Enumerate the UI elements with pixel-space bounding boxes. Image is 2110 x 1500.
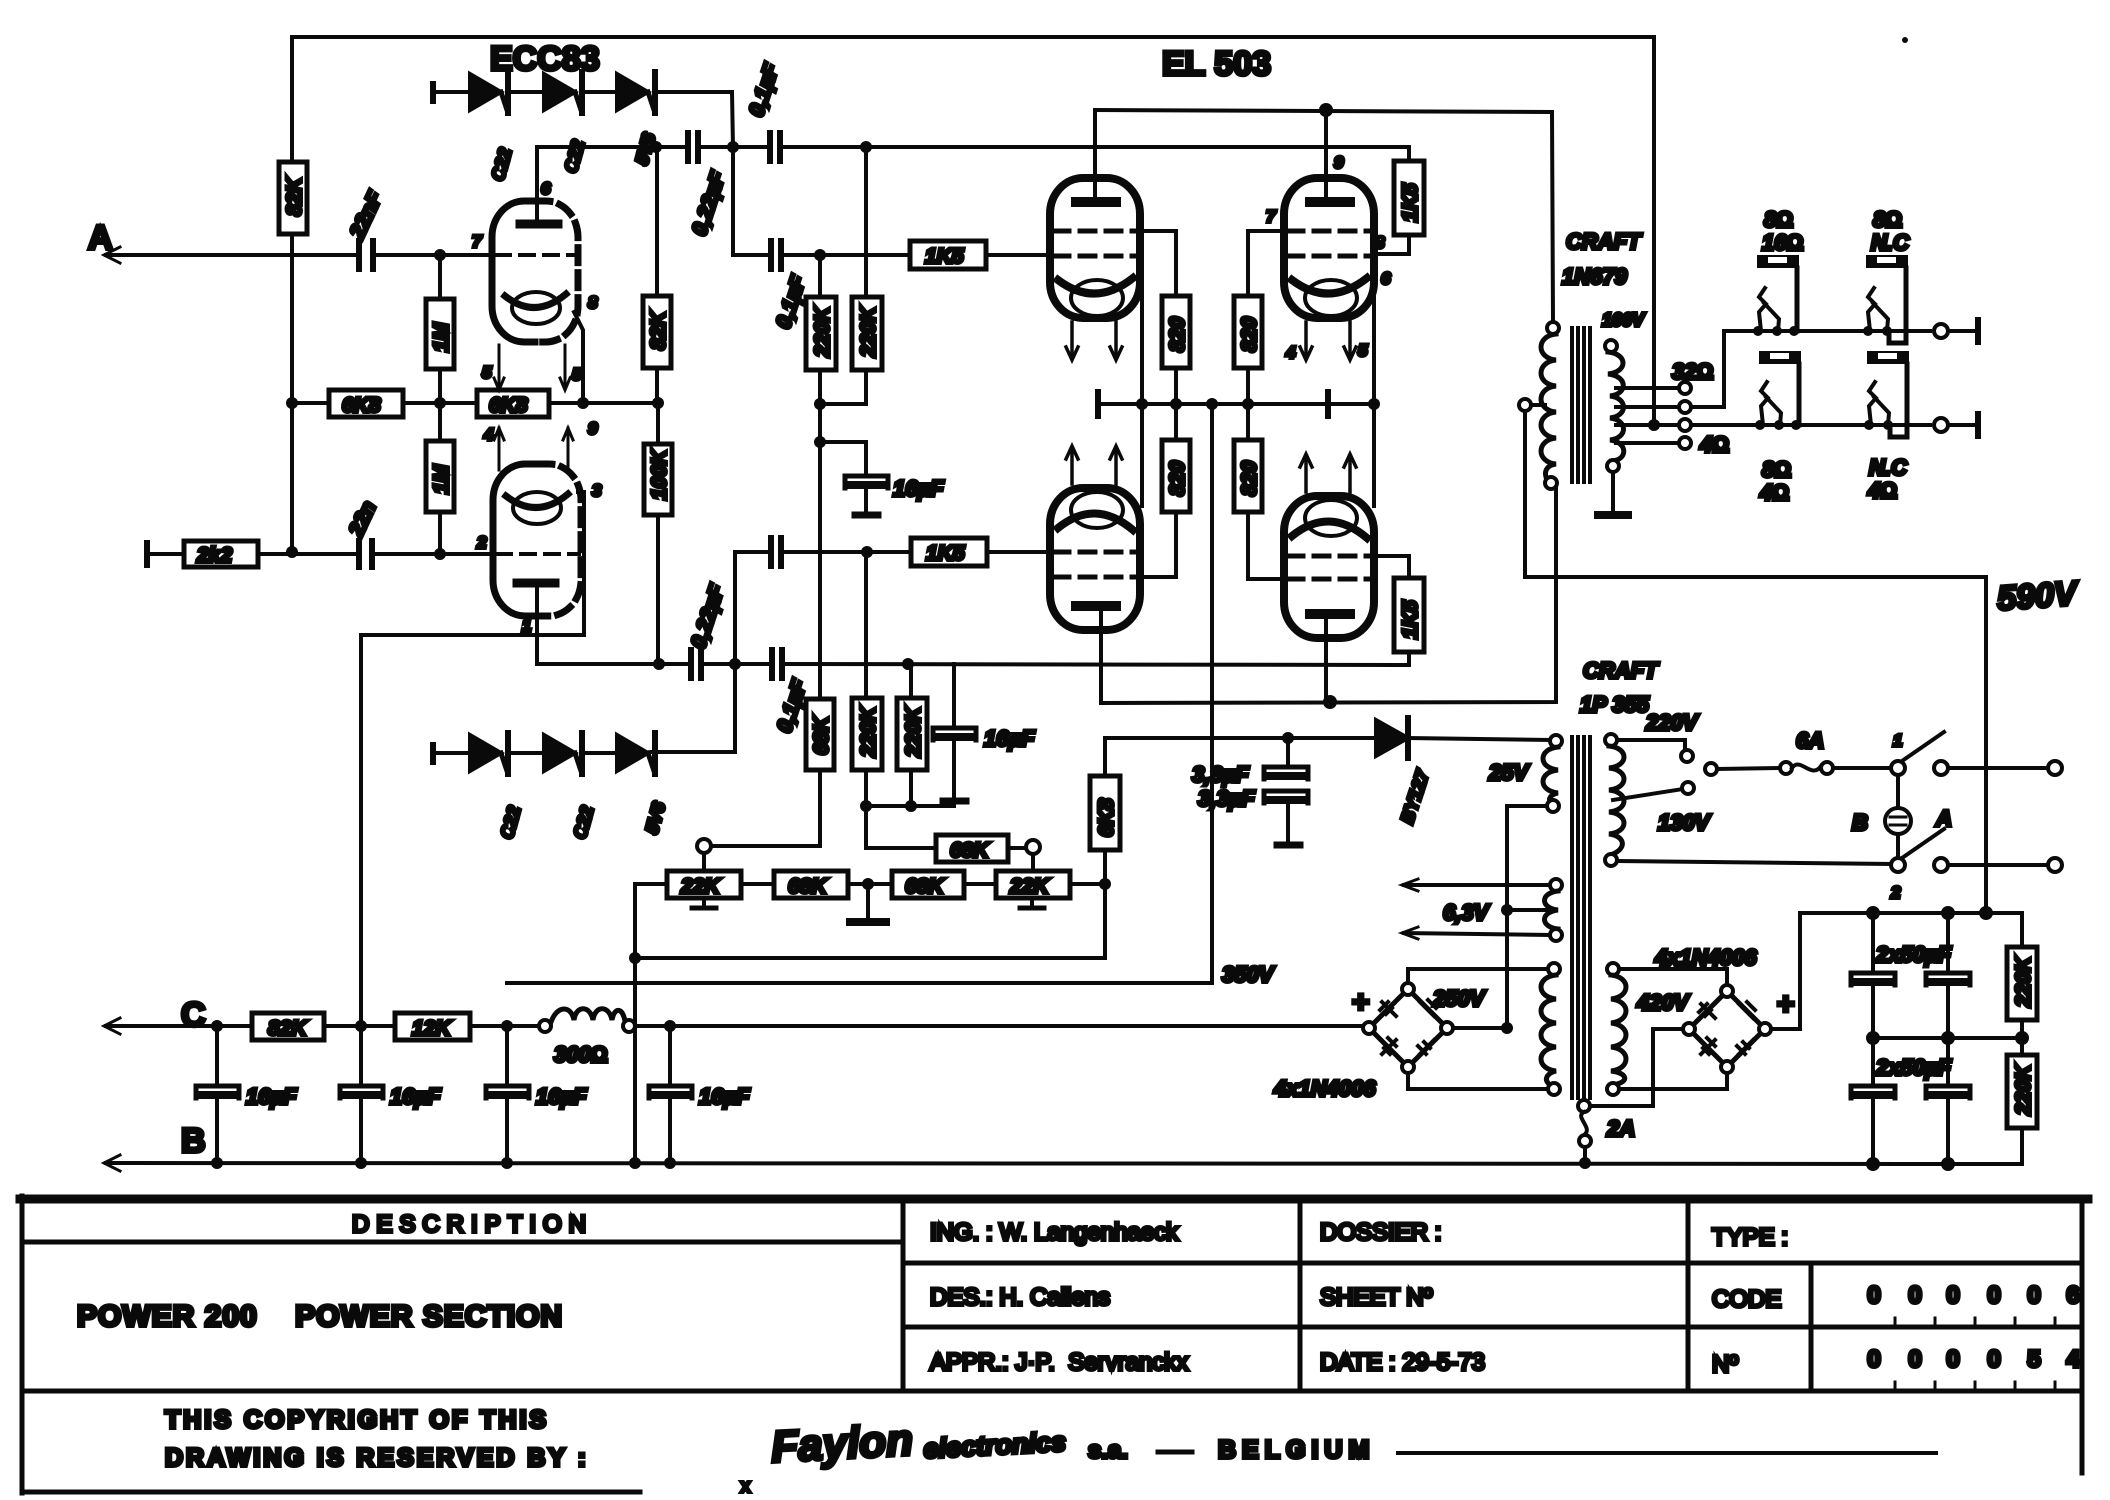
- svg-text:0: 0: [1946, 1282, 1959, 1309]
- resistor 820 (V3): [1234, 296, 1262, 398]
- svg-text:x: x: [741, 1476, 750, 1496]
- svg-text:B: B: [1852, 810, 1868, 835]
- diode C22: [470, 72, 544, 113]
- wire plate riser V5: [1324, 618, 1328, 702]
- wire bias loop: [633, 884, 637, 1163]
- wire plate rail lower y703: [1101, 489, 1556, 703]
- svg-text:16µF: 16µF: [893, 476, 944, 501]
- svg-text:5: 5: [1358, 341, 1368, 360]
- svg-text:APPR.: J·P. Servranckx: APPR.: J·P. Servranckx: [930, 1349, 1188, 1376]
- svg-text:3,3µF: 3,3µF: [1198, 786, 1255, 811]
- svg-text:350V: 350V: [1222, 962, 1276, 987]
- svg-text:16Ω: 16Ω: [1762, 230, 1803, 255]
- wire jack row2 bus: [1691, 423, 1930, 427]
- resistor 1K5 (screen V5): [1374, 556, 1424, 665]
- wire 6.3V leads: [1402, 879, 1550, 891]
- wire to tube2 grid: [374, 552, 493, 556]
- wire tap to jack row1: [1691, 331, 1758, 407]
- wire screen rail top y147: [537, 145, 684, 149]
- diode 5V6: [617, 72, 733, 147]
- border right: [2080, 1199, 2085, 1473]
- svg-text:B: B: [181, 1122, 206, 1160]
- svg-text:1: 1: [1893, 731, 1902, 750]
- tube EL503 V3 (upper right): [1284, 178, 1374, 318]
- capacitor 2x50uF (upper b): [1926, 913, 1970, 1038]
- svg-text:0: 0: [1908, 1346, 1921, 1373]
- lamp: [1852, 775, 1952, 858]
- row line under DESCRIPTION: [22, 1240, 903, 1245]
- wire plate riser V3: [1324, 116, 1328, 200]
- wire 68K bottom to pot wiper: [710, 770, 820, 846]
- resistor 6K8 (mid): [446, 390, 658, 417]
- svg-text:1: 1: [522, 616, 531, 635]
- svg-text:4Ω: 4Ω: [1699, 432, 1729, 457]
- svg-text:6,3V: 6,3V: [1443, 900, 1491, 925]
- resistor 220K (lower 1): [852, 558, 882, 806]
- svg-text:6A: 6A: [1796, 728, 1824, 753]
- svg-text:590V: 590V: [1996, 574, 2081, 618]
- svg-text:16µF: 16µF: [536, 1084, 587, 1109]
- wire g3 V2 to 820: [1140, 231, 1176, 296]
- wire plate rail upper y110: [1095, 110, 1553, 322]
- svg-text:220K: 220K: [811, 305, 834, 358]
- capacitor 2x50uF (upper a): [1851, 913, 1895, 1038]
- svg-text:+: +: [1777, 988, 1795, 1021]
- transformer PT core: [1572, 737, 1590, 1098]
- svg-text:2A: 2A: [1606, 1116, 1635, 1141]
- border left: [20, 1196, 25, 1493]
- svg-text:Faylon: Faylon: [770, 1416, 914, 1472]
- mains fuse 6A: [1717, 768, 1780, 769]
- resistor 820 (V5): [1234, 410, 1284, 579]
- resistor 22K (pot right): [996, 871, 1099, 908]
- text code digits: [1867, 1282, 2079, 1309]
- jack J3 (8/4 ohm): [1755, 351, 1801, 505]
- resistor 1K5 (lower grid stopper): [911, 538, 1058, 566]
- svg-text:4: 4: [2066, 1346, 2080, 1373]
- svg-text:300Ω: 300Ω: [554, 1042, 608, 1067]
- resistor 1M (upper): [426, 261, 454, 397]
- svg-text:THIS COPYRIGHT OF THIS: THIS COPYRIGHT OF THIS: [165, 1406, 549, 1434]
- diode chain lower: [433, 745, 470, 762]
- capacitor 22nF (A input): [345, 187, 387, 269]
- svg-text:1K5: 1K5: [1399, 183, 1422, 222]
- svg-text:7: 7: [472, 232, 483, 251]
- svg-text:1M: 1M: [430, 322, 453, 352]
- col line desc: [901, 1199, 906, 1391]
- fuse 2A center tap: [1578, 1100, 1635, 1163]
- svg-text:22K: 22K: [680, 875, 721, 898]
- winding 6.3V: [1545, 879, 1563, 941]
- capacitor 2x50uF (lower a): [1851, 1038, 1895, 1164]
- wire 220K pair down: [818, 404, 822, 699]
- transformer OPT core: [1572, 328, 1590, 482]
- ground (bias center): [850, 890, 886, 922]
- svg-text:9: 9: [588, 419, 598, 438]
- capacitor 16uF (c): [486, 1026, 587, 1163]
- switch pole 1: [1891, 731, 1948, 775]
- svg-text:1N679: 1N679: [1562, 264, 1628, 289]
- svg-text:100V: 100V: [1602, 310, 1646, 330]
- wire B rail: [106, 1163, 2022, 1164]
- wire 806 row: [866, 804, 954, 808]
- tube EL503 V2 (upper left): [1050, 178, 1140, 318]
- svg-text:82K: 82K: [268, 1017, 308, 1040]
- svg-text:0: 0: [1987, 1346, 2000, 1373]
- svg-text:ECC83: ECC83: [490, 40, 600, 78]
- node 6K8 mid: [434, 397, 446, 409]
- svg-text:820: 820: [1166, 317, 1189, 352]
- svg-text:0: 0: [2027, 1282, 2040, 1309]
- svg-text:0: 0: [1987, 1282, 2000, 1309]
- wire input A line: [106, 253, 357, 257]
- node pot wiper left: [697, 839, 711, 853]
- row line 2: [903, 1325, 2082, 1330]
- wire plate V1a riser: [535, 147, 539, 224]
- cathode bus: [1098, 402, 1374, 406]
- winding 220V/130V: [1605, 734, 1624, 866]
- svg-text:4x1N4006: 4x1N4006: [1273, 1076, 1376, 1101]
- col line dossier: [1298, 1199, 1303, 1391]
- wire cathode V1b to bias node: [578, 492, 584, 635]
- svg-text:4: 4: [483, 425, 494, 444]
- arrow A: [104, 247, 120, 263]
- wire sec tap 4ohm: [1616, 432, 1729, 457]
- svg-text:EL 503: EL 503: [1162, 45, 1271, 83]
- svg-text:CRAFT: CRAFT: [1566, 229, 1642, 254]
- node pot wiper right: [1026, 840, 1040, 854]
- resistor 6K8 (screen feed): [1090, 776, 1120, 850]
- col line code digits: [1809, 1263, 1814, 1391]
- svg-text:0: 0: [1946, 1346, 1959, 1373]
- node A rail junction: [286, 397, 298, 409]
- svg-text:4x1N4006: 4x1N4006: [1654, 945, 1757, 970]
- resistor 100K: [644, 409, 672, 658]
- wire C rail: [106, 1024, 252, 1028]
- resistor 12K: [395, 1013, 541, 1040]
- resistor 68K (row b): [892, 871, 996, 898]
- svg-text:6: 6: [1381, 269, 1391, 288]
- svg-text:16µF: 16µF: [390, 1084, 441, 1109]
- svg-text:68K: 68K: [950, 839, 990, 862]
- svg-text:16µF: 16µF: [246, 1084, 297, 1109]
- border bottom left: [22, 1490, 640, 1495]
- wire plate V1b riser down: [535, 586, 539, 664]
- row line 1: [903, 1261, 2082, 1266]
- svg-text:9: 9: [1334, 153, 1344, 172]
- transformer OPT primary: [1541, 322, 1559, 489]
- resistor 220K (upper 1): [806, 261, 836, 398]
- wire cap bank mid rail: [1873, 1036, 2022, 1040]
- svg-text:1K5: 1K5: [1399, 600, 1422, 639]
- capacitor 16uF (upper): [820, 442, 944, 515]
- svg-text:TYPE :: TYPE :: [1712, 1224, 1788, 1251]
- svg-text:3: 3: [592, 481, 602, 500]
- svg-text:220K: 220K: [2012, 1063, 2035, 1116]
- svg-text:2k2: 2k2: [196, 544, 232, 567]
- svg-text:6: 6: [541, 179, 551, 198]
- wire mains line 2: [1617, 861, 1891, 864]
- svg-text:0: 0: [1908, 1282, 1921, 1309]
- wire cathode V1a to 6K8 node: [574, 312, 583, 397]
- inductor 300ohm: [539, 1009, 635, 1067]
- svg-text:4: 4: [1285, 343, 1296, 362]
- svg-text:SHEET Nº: SHEET Nº: [1320, 1284, 1433, 1311]
- svg-text:+: +: [1352, 986, 1370, 1019]
- capacitor 3.3uF pair: [1192, 744, 1308, 845]
- wire 68Khoriz left leg: [866, 806, 936, 848]
- svg-text:820: 820: [1166, 461, 1189, 496]
- svg-text:12K: 12K: [412, 1017, 452, 1040]
- resistor 6K8 (left): [298, 390, 434, 417]
- resistor 2k2: [147, 541, 359, 567]
- resistor 22K (pot left): [635, 871, 774, 908]
- heater arrows V4 (up): [1066, 446, 1122, 484]
- wire below 82K: [290, 234, 294, 552]
- wire 220V selector: [1617, 740, 1685, 750]
- wire cathode V2 down: [1140, 284, 1144, 506]
- resistor 820 (V2): [1162, 296, 1190, 398]
- wire cap to tube: [375, 253, 492, 257]
- heater arrows V5 (up): [1300, 454, 1356, 492]
- svg-text:0: 0: [1867, 1346, 1880, 1373]
- svg-text:DATE : 29-5-73: DATE : 29-5-73: [1320, 1349, 1485, 1376]
- capacitor 2x50uF (lower b): [1926, 1038, 1970, 1164]
- svg-text:2x50µF: 2x50µF: [1875, 1055, 1952, 1080]
- wire chain start: [433, 84, 470, 101]
- svg-text:N.C: N.C: [1869, 455, 1908, 480]
- wire jack row1 bus: [1724, 329, 1930, 333]
- svg-text:820: 820: [1238, 317, 1261, 352]
- jack J4 (NC/4): [1864, 351, 1909, 503]
- wire sec tap 32ohm: [1616, 359, 1713, 394]
- svg-text:6K8: 6K8: [1095, 798, 1118, 837]
- svg-text:220V: 220V: [1645, 710, 1700, 735]
- svg-text:250V: 250V: [1432, 986, 1487, 1011]
- resistor 68K (row a): [774, 871, 892, 898]
- wire top feedback rail: [292, 37, 1654, 423]
- svg-text:1M: 1M: [430, 464, 453, 494]
- wire 6K8 top to diode line: [1105, 738, 1376, 776]
- wire 5V6 node down to 82K: [655, 147, 659, 296]
- diode C22 (lower): [470, 733, 544, 774]
- wire row1 output: [1934, 320, 1978, 342]
- svg-text:130V: 130V: [1658, 810, 1712, 835]
- capacitor 0.1uF (lower rail): [772, 650, 812, 736]
- svg-text:8: 8: [588, 293, 598, 312]
- svg-text:220K: 220K: [857, 305, 880, 358]
- capacitor 16uF (a): [196, 1026, 297, 1163]
- svg-text:DOSSIER :: DOSSIER :: [1320, 1219, 1441, 1246]
- winding 25V: [1543, 735, 1562, 812]
- svg-text:25V: 25V: [1488, 760, 1530, 785]
- svg-text:100K: 100K: [648, 448, 671, 500]
- svg-text:820: 820: [1238, 461, 1261, 496]
- svg-text:16µF: 16µF: [984, 726, 1035, 751]
- svg-text:2: 2: [1890, 883, 1901, 902]
- text no digits: [1867, 1346, 2080, 1373]
- capacitor 0.22uF (screen top): [688, 133, 731, 239]
- tube EL503 V5 (lower right): [1284, 496, 1374, 638]
- transformer OPT secondary: [1605, 340, 1624, 472]
- heater arrows V1a: [494, 345, 570, 390]
- svg-text:5: 5: [482, 363, 492, 382]
- ground OPT secondary: [1598, 472, 1628, 515]
- svg-text:220K: 220K: [2012, 955, 2035, 1008]
- jack J1 (8/16 ohm): [1753, 207, 1803, 336]
- diode BY127: [1376, 718, 1550, 758]
- capacitor 22nF (lower): [344, 498, 381, 567]
- tube EL503 V4 (lower left): [1050, 488, 1140, 630]
- capacitor 16uF (mid): [933, 664, 1035, 801]
- svg-text:22K: 22K: [1009, 875, 1050, 898]
- grid dashes V1a: [496, 253, 576, 257]
- wire plate riser V2: [1093, 110, 1097, 200]
- bridge rectifier 420V: [1683, 985, 1795, 1073]
- capacitor 16uF (b): [340, 1026, 441, 1163]
- svg-text:N.C: N.C: [1871, 230, 1910, 255]
- switch pole 2: [1890, 829, 1948, 902]
- svg-text:2x50µF: 2x50µF: [1875, 942, 1952, 967]
- wire screen rail lower y664: [537, 662, 687, 666]
- wire sec tap 16ohm: [1616, 401, 1691, 413]
- svg-text:8Ω: 8Ω: [1873, 207, 1902, 232]
- resistor 220K (bleeder 2): [2007, 1038, 2037, 1164]
- wire 250V bridge connections: [1408, 969, 1548, 983]
- svg-text:POWER 200 POWER SECTION: POWER 200 POWER SECTION: [77, 1300, 563, 1333]
- svg-text:0: 0: [1867, 1282, 1880, 1309]
- svg-text:220K: 220K: [857, 705, 880, 758]
- resistor 1K5 (screen V3): [1374, 147, 1424, 254]
- svg-text:420V: 420V: [1636, 990, 1691, 1015]
- border top: [20, 1195, 2088, 1204]
- svg-text:82K: 82K: [647, 310, 670, 350]
- diode C22 (lower): [544, 733, 617, 774]
- wire plate riser V4: [1099, 610, 1103, 703]
- capacitor 16uF (d): [649, 1026, 750, 1163]
- col line type: [1686, 1199, 1691, 1391]
- resistor 82K (input): [279, 162, 307, 234]
- svg-text:6K8: 6K8: [489, 394, 528, 417]
- wire bias line to left: [361, 635, 584, 1026]
- svg-text:6K8: 6K8: [342, 394, 381, 417]
- wire sec tap 8ohm: [1616, 419, 1691, 431]
- svg-text:2: 2: [476, 533, 487, 552]
- capacitor 0.1uF (grid): [771, 241, 811, 332]
- capacitor 0.1uF (lower grid): [771, 538, 781, 566]
- svg-text:68K: 68K: [810, 715, 833, 755]
- row line bottom: [22, 1389, 2082, 1394]
- svg-text:5: 5: [572, 365, 582, 384]
- svg-text:DRAWING IS RESERVED BY :: DRAWING IS RESERVED BY :: [165, 1444, 589, 1472]
- svg-text:68K: 68K: [905, 875, 945, 898]
- node OPT CT: [1519, 399, 1531, 411]
- svg-text:s.a.: s.a.: [1088, 1437, 1128, 1464]
- tube ECC83 lower half (V1b): [493, 464, 581, 616]
- winding 250V: [1541, 963, 1560, 1095]
- svg-text:CODE: CODE: [1712, 1286, 1781, 1313]
- svg-text:4Ω: 4Ω: [1867, 478, 1897, 503]
- digit ticks: [1895, 1318, 2055, 1391]
- jack J2 (8/NC): [1863, 207, 1910, 343]
- svg-text:8Ω: 8Ω: [1762, 457, 1791, 482]
- svg-text:68K: 68K: [788, 875, 828, 898]
- resistor 82K (driver plate): [643, 296, 671, 397]
- svg-text:32Ω: 32Ω: [1672, 359, 1713, 384]
- svg-text:16µF: 16µF: [699, 1084, 750, 1109]
- resistor 82K (C feed): [252, 1013, 395, 1040]
- svg-text:BELGIUM: BELGIUM: [1218, 1436, 1375, 1464]
- wire cap bank top rail: [1800, 911, 2022, 915]
- svg-text:DESCRIPTION: DESCRIPTION: [352, 1211, 593, 1238]
- bridge rectifier 250V: [1352, 983, 1453, 1073]
- tube ECC83 upper half (V1a): [492, 201, 578, 342]
- resistor 68K (vertical): [806, 699, 834, 770]
- svg-text:DES.: H. Callens: DES.: H. Callens: [930, 1284, 1110, 1311]
- capacitor 0.22uF (lower): [687, 581, 730, 678]
- heater arrows V2: [1066, 322, 1122, 360]
- resistor 820 (V4): [1142, 410, 1190, 577]
- svg-text:ING. : W. Langenhaeck: ING. : W. Langenhaeck: [930, 1219, 1179, 1246]
- resistor 68K (horizontal top): [936, 835, 1026, 862]
- diode C22: [544, 72, 617, 113]
- svg-text:CRAFT: CRAFT: [1583, 658, 1659, 683]
- heater arrows V3: [1300, 322, 1356, 360]
- wire 420V bridge connections: [1619, 969, 1727, 985]
- svg-text:82K: 82K: [283, 176, 306, 216]
- wire 350V line: [507, 404, 1212, 983]
- resistor 1K5 (upper grid stopper): [910, 241, 1050, 269]
- svg-text:8Ω: 8Ω: [1764, 207, 1793, 232]
- svg-text:1K5: 1K5: [925, 245, 964, 268]
- capacitor 0.1uF (screen top): [745, 60, 784, 161]
- wire cathode V3 down: [1372, 286, 1376, 506]
- wire 25V bottom to rectifier rail: [1507, 806, 1547, 1026]
- wire row2 output: [1934, 414, 1978, 436]
- wire 82K drop: [290, 37, 294, 162]
- svg-text:3,3µF: 3,3µF: [1192, 762, 1249, 787]
- svg-text:6: 6: [2066, 1282, 2079, 1309]
- svg-text:5: 5: [2027, 1346, 2040, 1373]
- node grid1 junction: [434, 249, 446, 261]
- svg-text:1K5: 1K5: [926, 542, 965, 565]
- heater arrows V1b (pointing up): [494, 428, 573, 470]
- svg-text:C: C: [181, 996, 206, 1034]
- wire x735 strand: [652, 552, 735, 752]
- resistor 1M (lower): [426, 409, 454, 548]
- wire 130V tap: [1613, 789, 1683, 800]
- wire 590V line: [1525, 411, 1986, 913]
- wire grid rail y255: [733, 153, 767, 255]
- svg-text:220K: 220K: [902, 705, 925, 758]
- resistor 220K (upper 2): [826, 153, 882, 404]
- svg-text:8: 8: [1375, 233, 1385, 252]
- wire lower grid rail y552: [735, 550, 767, 554]
- svg-text:1P 355: 1P 355: [1580, 692, 1650, 717]
- winding 420V: [1607, 963, 1626, 1095]
- diode 5V6 (lower): [617, 733, 656, 774]
- resistor 220K (bleeder 1): [2007, 913, 2037, 1038]
- svg-text:4Ω: 4Ω: [1759, 480, 1789, 505]
- wire g1 V3 to 820: [1248, 231, 1284, 296]
- resistor 220K (lower 2): [897, 664, 927, 806]
- svg-text:Nº: Nº: [1712, 1351, 1738, 1378]
- svg-text:7: 7: [1266, 207, 1277, 226]
